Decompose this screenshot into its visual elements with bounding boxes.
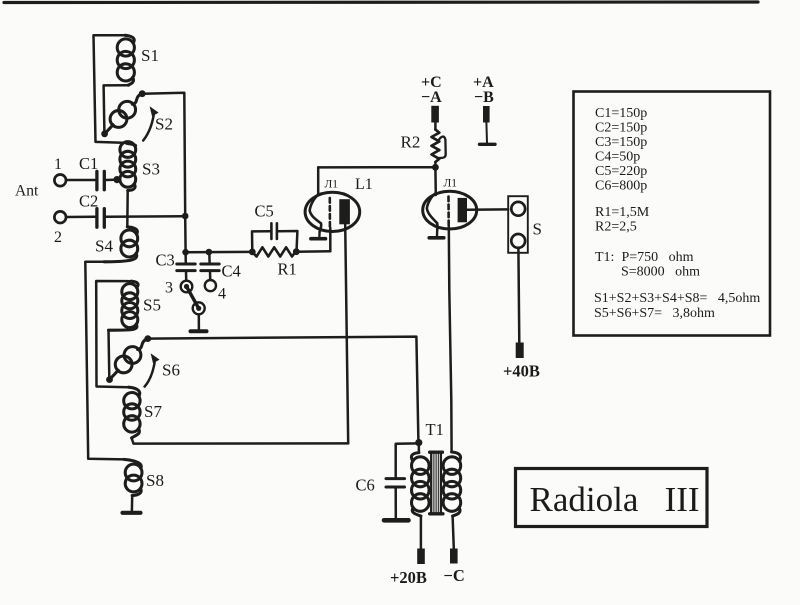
svg-text:S6: S6 xyxy=(162,361,180,380)
wire R2 top xyxy=(434,123,437,130)
svg-text:S2: S2 xyxy=(155,115,173,134)
node R2 bottom dot xyxy=(432,164,439,171)
svg-text:C2=150p: C2=150p xyxy=(595,121,647,136)
svg-text:C4=50p: C4=50p xyxy=(595,150,640,165)
wire S5 bottom step xyxy=(107,330,110,377)
tube1 filament bar xyxy=(311,237,326,241)
switch pole 3 xyxy=(181,281,193,293)
svg-text:C6=800p: C6=800p xyxy=(595,179,647,194)
inductor S7 xyxy=(124,387,140,438)
terminal +A/-B stem xyxy=(485,123,488,144)
node T1 top dot xyxy=(415,439,422,446)
wire tube2 grid down xyxy=(449,227,452,453)
wire rail over C4 xyxy=(186,251,253,254)
wire node to T1 primary xyxy=(418,443,421,453)
svg-text:+40B: +40B xyxy=(503,362,540,381)
wire S8 to ground xyxy=(131,496,134,511)
inductor S1 xyxy=(117,35,134,85)
wire S2 to grid rail xyxy=(142,93,185,216)
capacitor C4 xyxy=(201,264,219,271)
switch pole lower xyxy=(193,302,205,314)
node R1 right dot xyxy=(293,248,300,255)
terminal +20B post xyxy=(417,549,425,565)
capacitor C2 xyxy=(97,209,104,228)
svg-text:+20B: +20B xyxy=(390,568,427,587)
svg-text:Ant: Ant xyxy=(15,183,39,200)
tube1 filament xyxy=(310,195,322,232)
wire C2 to node xyxy=(106,215,185,218)
wire C4 stem xyxy=(208,252,211,263)
node junction C2/S-rail xyxy=(182,213,189,220)
wire top-left corner xyxy=(94,35,127,143)
svg-text:−B: −B xyxy=(474,89,494,106)
triode 2 envelope xyxy=(423,191,477,229)
svg-text:C3=150p: C3=150p xyxy=(595,135,647,150)
svg-text:C1: C1 xyxy=(79,154,98,173)
ground switch xyxy=(191,329,207,333)
terminal +40B post xyxy=(516,343,524,359)
svg-text:Radiola III: Radiola III xyxy=(530,480,700,519)
inductor S8 xyxy=(124,459,142,495)
wire S7 bottom to anode rail xyxy=(132,438,349,444)
node C3 top dot xyxy=(182,249,189,256)
wire S5 bracket xyxy=(96,281,131,387)
jack S frame xyxy=(508,196,528,253)
inductor S4 xyxy=(104,227,138,262)
ground C6 xyxy=(384,518,409,523)
node S6 left dot xyxy=(106,376,113,383)
wire C5 left xyxy=(252,231,270,252)
jack S bottom contact xyxy=(511,234,525,248)
capacitor C3 xyxy=(177,264,195,271)
svg-text:R2: R2 xyxy=(401,133,421,152)
resistor R2 curl xyxy=(437,137,445,159)
svg-text:S3: S3 xyxy=(142,160,160,179)
transformer T1 core xyxy=(430,452,443,514)
wire C4 to post 4 xyxy=(209,271,212,280)
wire tube1 top rail xyxy=(318,166,435,169)
resistor R1 xyxy=(252,247,295,256)
svg-text:R1=1,5M: R1=1,5M xyxy=(595,205,650,220)
node R1 left dot xyxy=(249,249,256,256)
wire R2 node to tube2 xyxy=(434,167,437,195)
wire C6 to ground xyxy=(394,487,397,518)
inductor S3 xyxy=(120,142,136,191)
terminal 2 xyxy=(54,211,66,223)
svg-text:−C: −C xyxy=(444,566,465,585)
svg-text:S5: S5 xyxy=(143,296,161,315)
wire T1 secondary to -C xyxy=(453,516,454,549)
post 4 xyxy=(205,280,216,291)
tube2 filament xyxy=(427,193,438,230)
svg-text:C2: C2 xyxy=(79,192,98,211)
capacitor C5 xyxy=(271,223,277,239)
terminal +A/-B bar xyxy=(480,143,496,146)
svg-text:S7: S7 xyxy=(144,402,162,421)
switch lever xyxy=(187,287,199,309)
wire switch to ground xyxy=(198,315,201,330)
radiola box frame xyxy=(516,469,708,527)
wire R1 to grid xyxy=(296,250,330,253)
tube2 anode xyxy=(458,198,467,222)
capacitor C1 xyxy=(97,171,104,189)
node S3 tap dot xyxy=(113,176,120,183)
transformer T1 primary xyxy=(411,453,429,516)
svg-text:R2=2,5: R2=2,5 xyxy=(595,220,637,235)
node S6 right dot xyxy=(144,335,151,342)
svg-text:S8: S8 xyxy=(146,471,164,490)
svg-text:S5+S6+S7= 3,8ohm: S5+S6+S7= 3,8ohm xyxy=(594,306,715,321)
svg-text:C1=150p: C1=150p xyxy=(595,106,647,121)
svg-text:S1: S1 xyxy=(141,46,159,65)
transformer T1 secondary xyxy=(443,452,461,516)
wire term2 to C2 xyxy=(66,216,95,219)
wire S4 bottom to left rail xyxy=(85,262,124,460)
triode L1 envelope xyxy=(305,192,360,231)
jack S top contact xyxy=(511,202,525,216)
terminal +C/-A post xyxy=(431,106,439,123)
wire S3 to S4 xyxy=(126,191,129,227)
svg-text:Л1: Л1 xyxy=(325,179,339,191)
svg-text:Л1: Л1 xyxy=(444,178,458,190)
ground S8 xyxy=(123,511,141,515)
wire tube1 anode down xyxy=(345,224,348,443)
inductor S2 (variometer) xyxy=(105,94,143,134)
svg-text:1: 1 xyxy=(54,156,62,173)
wire grid lead L1 xyxy=(329,228,332,251)
svg-text:L1: L1 xyxy=(355,176,373,193)
inductor S5 xyxy=(109,281,139,330)
wire T1 primary to +20B xyxy=(420,516,423,549)
tube1 anode xyxy=(339,199,350,224)
svg-text:C5: C5 xyxy=(255,202,274,221)
tube1 top lead xyxy=(317,167,320,195)
svg-text:R1: R1 xyxy=(278,260,297,279)
node C4 top dot xyxy=(206,249,213,256)
wire S1 bottom step xyxy=(104,85,129,132)
svg-text:C4: C4 xyxy=(222,262,241,281)
svg-text:C3: C3 xyxy=(156,251,175,270)
svg-text:2: 2 xyxy=(54,229,62,246)
terminal +A/-B post xyxy=(483,106,490,123)
resistor R2 xyxy=(432,130,440,163)
terminal 1 xyxy=(54,175,66,187)
svg-text:S: S xyxy=(533,220,542,239)
wire S6 to T1 rail xyxy=(148,337,419,441)
svg-text:3: 3 xyxy=(165,280,173,297)
tube2 grid dashed xyxy=(447,197,450,227)
svg-text:S4: S4 xyxy=(95,237,113,256)
svg-text:T1: P=750 ohm: T1: P=750 ohm xyxy=(595,250,694,265)
wire C3 to switch xyxy=(185,271,188,281)
svg-text:T1: T1 xyxy=(426,420,444,439)
wire node to C6 xyxy=(396,443,419,476)
svg-text:−A: −A xyxy=(421,89,442,106)
arrow S6 xyxy=(145,359,156,387)
svg-text:C5=220p: C5=220p xyxy=(595,164,647,179)
info box frame xyxy=(574,92,771,336)
tube1 grid dashed xyxy=(328,198,331,227)
svg-text:4: 4 xyxy=(218,286,226,303)
tube2 filament stem xyxy=(436,230,439,236)
wire term1 to C1 xyxy=(66,179,95,182)
arrow S2 xyxy=(143,112,154,141)
wire C3 stem xyxy=(184,252,187,264)
tube2 filament bar xyxy=(429,236,444,240)
wire tube2 anode to jack xyxy=(467,208,508,211)
terminal -C post xyxy=(450,549,458,564)
tube1 filament stem xyxy=(318,232,321,236)
svg-text:C6: C6 xyxy=(356,476,375,495)
wire C1 to S3 tap xyxy=(106,179,114,182)
scan border line top xyxy=(4,0,758,4)
inductor S6 (variometer) xyxy=(110,339,148,380)
wire node down to C3 xyxy=(184,216,187,252)
node S2 right dot xyxy=(139,90,146,97)
wire jack to +40B xyxy=(517,248,520,343)
svg-text:S1+S2+S3+S4+S8= 4,5ohm: S1+S2+S3+S4+S8= 4,5ohm xyxy=(594,291,760,306)
wire C5 right xyxy=(278,231,297,252)
info box text xyxy=(594,106,760,321)
capacitor C6 xyxy=(386,479,405,487)
svg-text:S=8000 ohm: S=8000 ohm xyxy=(621,265,700,280)
node S2 left dot xyxy=(101,130,108,137)
